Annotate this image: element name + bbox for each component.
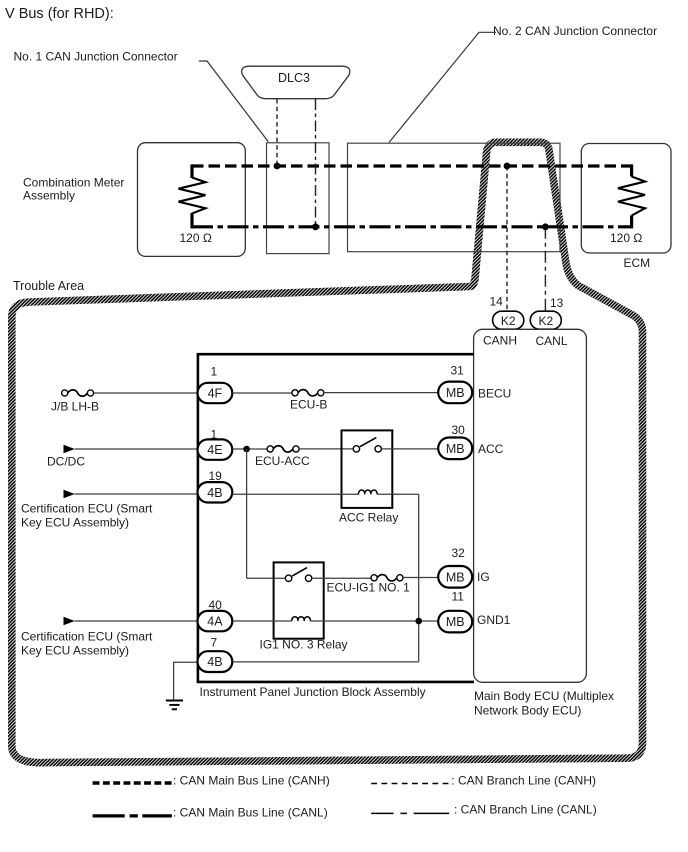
connector K2 (CANL) (530, 311, 561, 329)
wire 4B to ACC relay coil (232, 493, 358, 495)
svg-text:Instrument Panel Junction Bloc: Instrument Panel Junction Block Assembly (200, 685, 426, 699)
wire row2 left (arrow to 4E) (75, 448, 198, 450)
junction dot CANL/No2 (542, 223, 549, 230)
ACC relay switch contact (353, 438, 381, 452)
svg-text:DC/DC: DC/DC (47, 455, 85, 469)
connector 4E (198, 439, 233, 459)
svg-text:Network Body ECU): Network Body ECU) (474, 704, 581, 718)
No. 2 CAN junction connector box (348, 143, 561, 252)
svg-text:MB: MB (446, 615, 465, 629)
wire switch to MB30 (381, 448, 438, 450)
CANH main bus line (dashed) (192, 164, 632, 167)
ACC relay box (342, 430, 393, 508)
svg-text:CANL: CANL (536, 334, 568, 348)
svg-text:31: 31 (451, 364, 465, 378)
legend CAN branch CANH sample (371, 783, 448, 785)
wire row1 mid (4F to ECU-B fuse) (232, 392, 292, 394)
IG1 relay coil (292, 617, 311, 621)
svg-text:Trouble Area: Trouble Area (13, 279, 84, 293)
junction dot after 4E (243, 446, 250, 453)
svg-text:: CAN Branch Line (CANL): : CAN Branch Line (CANL) (454, 803, 597, 817)
svg-text:30: 30 (452, 423, 466, 437)
svg-text:ACC Relay: ACC Relay (339, 511, 398, 525)
wire row4 (arrow to 4A) (75, 620, 198, 622)
wire corner down to 4B(7) row (418, 494, 420, 662)
IG1 NO.3 relay box (274, 562, 324, 638)
CAN branch line CANL from DLC3 (dash-dot) (315, 99, 317, 227)
junction dot CANH/DLC3 (274, 163, 281, 170)
svg-text:Assembly: Assembly (23, 189, 75, 203)
svg-text:19: 19 (209, 469, 223, 483)
wire fuse to ACC relay switch (299, 448, 353, 450)
svg-text:32: 32 (452, 546, 466, 560)
fuse J/B LH-B (62, 390, 94, 396)
connector MB (30) (438, 438, 472, 460)
wire 4B(7) to riser (232, 661, 418, 663)
CANL main bus line (dash-dot) (192, 225, 632, 228)
connector 4A (198, 611, 233, 631)
wire row1 left (J/B to 4F) (94, 392, 198, 394)
svg-text:4F: 4F (208, 387, 223, 401)
trouble area hatched border (12, 142, 643, 762)
legend CAN main bus CANL sample (93, 814, 172, 817)
CAN branch line CANH from DLC3 (dashed) (276, 99, 278, 166)
svg-text:120 Ω: 120 Ω (610, 231, 642, 245)
wire switch to ECU-IG1 fuse (312, 577, 371, 579)
svg-text:4B: 4B (207, 486, 222, 500)
svg-text:BECU: BECU (478, 387, 511, 401)
svg-text:CANH: CANH (483, 334, 517, 348)
svg-text:11: 11 (452, 590, 465, 604)
svg-text:: CAN Main Bus Line (CANH): : CAN Main Bus Line (CANH) (173, 774, 330, 788)
svg-text:Certification ECU (Smart: Certification ECU (Smart (21, 630, 153, 644)
svg-text:DLC3: DLC3 (278, 71, 310, 85)
leader line to No. 1 connector (199, 61, 268, 142)
No. 1 CAN junction connector box (267, 143, 330, 254)
svg-text:1: 1 (211, 428, 218, 442)
leader line to No. 2 connector (389, 32, 496, 142)
svg-text:Main Body ECU (Multiplex: Main Body ECU (Multiplex (474, 689, 614, 703)
wire row3 (arrow to 4B) (75, 493, 198, 495)
fuse ECU-ACC (267, 446, 299, 452)
wire fuse to MB32 (403, 577, 438, 579)
svg-text:J/B LH-B: J/B LH-B (51, 400, 99, 414)
connector MB (11) (438, 611, 472, 633)
junction dot on 4A wire (415, 618, 422, 625)
svg-text:V Bus (for RHD):: V Bus (for RHD): (5, 6, 114, 22)
CAN branch line CANL to K2 (dash-dot) (544, 227, 546, 311)
svg-text:4B: 4B (207, 655, 222, 669)
svg-text:ECU-IG1 NO. 1: ECU-IG1 NO. 1 (327, 581, 411, 595)
resistor 120 ohm (ECM) (618, 177, 645, 216)
svg-text:Certification ECU (Smart: Certification ECU (Smart (21, 502, 153, 516)
fuse ECU-IG1 NO. 1 (371, 575, 403, 581)
svg-text:No. 2 CAN Junction Connector: No. 2 CAN Junction Connector (493, 24, 657, 38)
svg-text:4A: 4A (207, 615, 223, 629)
CANL elbow at left resistor (190, 213, 193, 228)
connector MB (31) (438, 382, 472, 404)
certification arrow row4 (64, 617, 75, 625)
junction dot CANL/DLC3 (312, 223, 319, 230)
DC/DC arrow (64, 445, 75, 453)
wire 4A to IG1 coil (232, 620, 291, 622)
svg-text:ECM: ECM (624, 256, 651, 270)
ECM box (581, 144, 671, 254)
svg-text:K2: K2 (538, 314, 553, 328)
svg-text:1: 1 (211, 365, 218, 379)
wire row1 right (fuse to MB31) (324, 392, 438, 394)
svg-text:K2: K2 (501, 314, 516, 328)
CANL elbow at right resistor (630, 216, 633, 229)
svg-text:MB: MB (446, 386, 465, 400)
svg-text:: CAN Branch Line (CANH): : CAN Branch Line (CANH) (451, 774, 596, 788)
resistor 120 ohm (combination meter) (179, 178, 206, 214)
IG1 relay switch contact (285, 568, 311, 582)
fuse ECU-B (292, 390, 324, 396)
svg-text:Combination Meter: Combination Meter (23, 176, 124, 190)
svg-text:IG1 NO. 3 Relay: IG1 NO. 3 Relay (260, 638, 348, 652)
svg-text:No. 1 CAN Junction Connector: No. 1 CAN Junction Connector (14, 50, 178, 64)
svg-text:MB: MB (446, 442, 465, 456)
main body ECU box (474, 329, 587, 682)
svg-text:MB: MB (446, 570, 465, 584)
svg-text:ECU-B: ECU-B (290, 398, 327, 412)
svg-text:IG: IG (477, 570, 490, 584)
CANH elbow at right resistor (630, 164, 633, 176)
wire from 4E dot down (246, 449, 248, 578)
ACC relay coil (358, 490, 377, 494)
ground symbol (166, 701, 183, 710)
svg-text:4E: 4E (207, 443, 222, 457)
svg-text:13: 13 (550, 296, 564, 310)
certification arrow row3 (64, 490, 75, 498)
svg-text:14: 14 (490, 295, 504, 309)
wire 4B(7) to ground (174, 662, 198, 700)
svg-text:120 Ω: 120 Ω (180, 231, 212, 245)
junction dot CANH/No2 (504, 163, 511, 170)
CAN branch line CANH to K2 (dashed) (506, 166, 508, 311)
wire coil to corner (377, 493, 419, 495)
svg-text:ECU-ACC: ECU-ACC (255, 454, 310, 468)
wire to IG1 relay switch (247, 577, 286, 579)
svg-text:GND1: GND1 (477, 613, 511, 627)
connector 4B (7) (198, 651, 233, 672)
svg-text:ACC: ACC (478, 442, 504, 456)
connector MB (32) (438, 566, 472, 588)
connector K2 (CANH) (493, 311, 524, 329)
connector 4B (19) (198, 482, 233, 502)
CANH elbow at left resistor (190, 164, 193, 178)
svg-text:40: 40 (209, 598, 223, 612)
connector 4F (198, 383, 233, 403)
combination meter assembly box (138, 143, 246, 257)
DLC3 connector shape (242, 66, 350, 99)
svg-text:: CAN Main Bus Line (CANL): : CAN Main Bus Line (CANL) (173, 806, 328, 820)
svg-text:Key ECU Assembly): Key ECU Assembly) (21, 644, 129, 658)
instrument panel junction block box (198, 354, 474, 682)
legend CAN main bus CANH sample (93, 781, 172, 784)
wire coil to MB11 (310, 620, 438, 622)
legend CAN branch CANL sample (371, 812, 449, 814)
svg-text:Key ECU Assembly): Key ECU Assembly) (21, 516, 129, 530)
svg-text:7: 7 (211, 636, 218, 650)
wire 4E to fuse (232, 448, 267, 450)
